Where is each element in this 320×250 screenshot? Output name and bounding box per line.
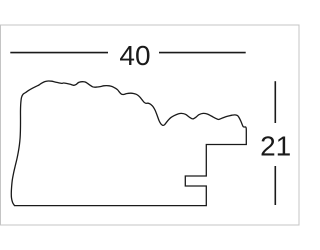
dimension line height lower segment [274,166,276,205]
dimension line width left segment [10,52,108,54]
svg-text:21: 21 [260,131,291,162]
moulding profile outline [11,81,246,206]
image border box [1,25,300,225]
dimension line width right segment [159,52,246,54]
svg-text:40: 40 [119,40,150,71]
dimension line height upper segment [274,81,276,123]
